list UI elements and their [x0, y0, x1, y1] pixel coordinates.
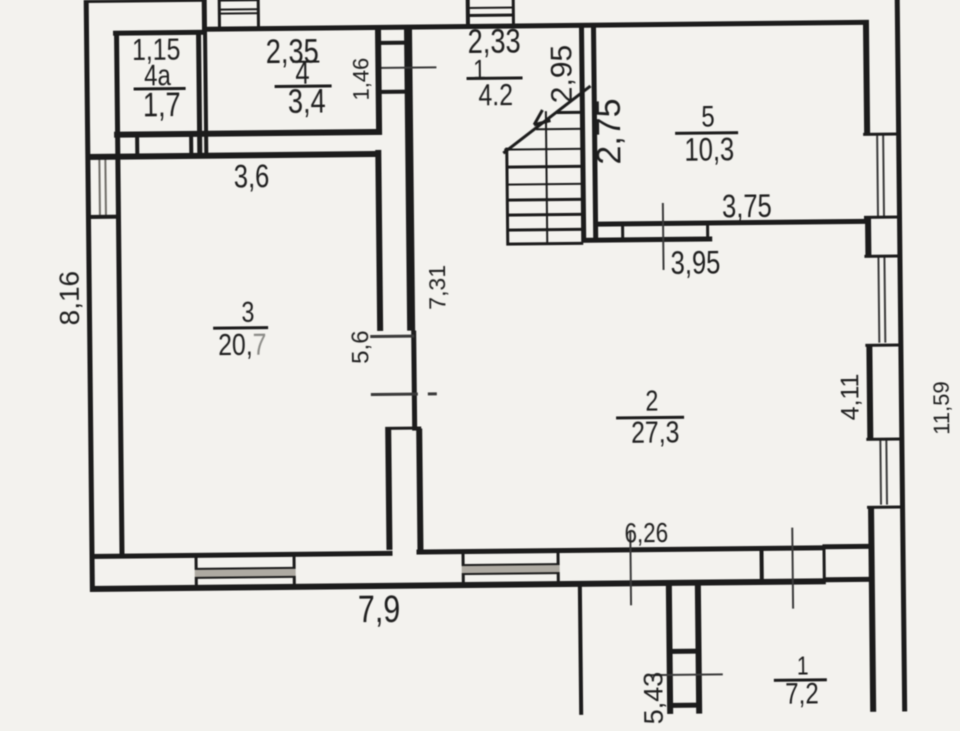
label 1,15 — [132, 34, 181, 66]
window R3 caps — [866, 437, 904, 441]
wall band right of door lower — [826, 576, 870, 582]
fraction line 4 — [275, 84, 332, 88]
label 11,59 — [931, 381, 954, 435]
bottom window B2 stripes — [462, 565, 560, 573]
room 4a right wall line 1 — [196, 30, 202, 158]
right wall inner segment C — [866, 347, 873, 438]
fraction line 4a — [134, 87, 186, 91]
label 20,7 — [217, 329, 266, 361]
label 7,9 — [358, 591, 401, 629]
window R3 glazing — [879, 441, 882, 505]
tick 6,26 — [629, 530, 632, 605]
bottom window B2 jambs — [461, 553, 464, 582]
fraction line hall — [467, 76, 523, 80]
left wall inner line — [115, 137, 124, 558]
door jamb bottom wall left — [759, 546, 763, 584]
label 4.2 — [478, 79, 513, 110]
label 6,26 — [624, 519, 668, 547]
label 1 room — [797, 652, 809, 678]
label 8,16 — [55, 271, 84, 326]
bottom inner wall line left part — [91, 550, 392, 558]
fraction line 1 — [774, 678, 827, 682]
underline 2,35 — [292, 60, 319, 63]
chimney block 2 — [466, 0, 470, 25]
window R1 caps — [863, 132, 901, 136]
door jamb bottom wall right — [822, 545, 826, 583]
wall notch vertical top — [202, 0, 207, 30]
label 3 room — [241, 299, 254, 328]
stairs steps — [504, 147, 582, 151]
label 2,95 — [547, 45, 578, 104]
label 3,6 — [234, 160, 270, 192]
right wall inner segment A — [862, 20, 869, 133]
door single line room3 — [411, 331, 418, 431]
corridor left wall — [577, 583, 583, 715]
bottom wall of rooms 4a and 4 — [114, 129, 382, 137]
room 5 bottom second line — [581, 236, 712, 242]
label 1,7 — [143, 88, 181, 122]
room 4 right wall — [375, 28, 382, 134]
hall left wall upper — [404, 28, 415, 331]
label 5,43 — [640, 672, 668, 725]
corridor-room1 connector 1 — [667, 649, 702, 654]
tick door bottom — [791, 528, 794, 609]
fraction line 3 — [213, 326, 268, 330]
outer wall left — [84, 0, 95, 592]
room 5 left wall line 2 — [591, 26, 598, 243]
room3-room2 lower wall left line — [385, 429, 392, 550]
bottom window B1 jambs — [195, 557, 198, 586]
tick 5,6 lower — [371, 393, 418, 396]
main top wall — [202, 20, 868, 31]
label 2,35 — [266, 35, 319, 70]
right wall inner segment D — [868, 509, 877, 712]
room3-hall wall left line — [375, 150, 382, 331]
label 7,31 — [425, 265, 448, 310]
label 5 — [701, 102, 715, 132]
wall band right of door upper — [822, 544, 869, 549]
left window caps — [86, 156, 119, 160]
threshold jamb right — [706, 225, 709, 241]
chimney block 1 — [218, 0, 221, 28]
corridor-room1 wall left line — [666, 583, 673, 714]
label 4,11 — [838, 373, 863, 420]
room 5 bottom inner line — [593, 219, 871, 227]
window R1 glazing — [876, 136, 879, 216]
opening 1,46 connector top — [379, 41, 406, 45]
label 2,33 — [467, 24, 520, 59]
label 1,46 — [350, 58, 372, 101]
corridor-room1 connector 2 — [667, 703, 702, 708]
tick 3,95 — [661, 203, 664, 270]
room 5 left wall line 1 — [579, 26, 586, 243]
opening 1,46 connector bottom — [380, 90, 407, 94]
corridor-room1 wall right line — [695, 583, 702, 714]
window R2 caps — [864, 254, 902, 258]
stairs diagonal — [502, 85, 591, 154]
label 27,3 — [631, 416, 680, 448]
label 2,75 — [592, 98, 627, 165]
room 4a top wall — [113, 30, 204, 36]
label 4a — [144, 61, 171, 91]
label 10,3 — [684, 133, 734, 166]
window R2 glazing — [877, 258, 880, 343]
room 4a right wall line 2 — [203, 30, 209, 158]
room 3 top wall — [87, 150, 380, 159]
label 5,6 — [349, 330, 373, 364]
label 4 — [295, 57, 310, 89]
bottom window B1 stripes — [195, 568, 296, 577]
label 1 hall — [473, 56, 486, 84]
threshold jamb left — [621, 226, 624, 242]
fraction line 5 — [675, 131, 738, 135]
leader 1,46 — [381, 66, 436, 69]
right wall outer line — [894, 0, 907, 711]
room 4a left wall — [114, 31, 120, 137]
lower wall top connector — [385, 427, 421, 430]
outer wall top-left thin — [84, 0, 206, 3]
label 3,75 — [722, 190, 772, 223]
label 3,4 — [288, 84, 326, 118]
door jamb 4a-3 left — [135, 131, 139, 158]
stairs divider — [544, 111, 548, 245]
thin leader room1 — [651, 673, 723, 676]
label 2 room — [645, 388, 658, 417]
stairs left edge — [505, 148, 509, 246]
bottom outer wall line — [90, 578, 826, 592]
stairs step upper right 1 — [557, 111, 582, 114]
right wall inner segment B — [865, 219, 871, 255]
door jamb 4a-3 right — [189, 131, 193, 158]
label 7,2 — [785, 679, 819, 709]
left window glazing — [98, 160, 101, 215]
tick 5,6 upper — [370, 335, 414, 338]
room3-room2 lower wall right line — [416, 429, 423, 550]
fraction line 2 — [616, 415, 684, 419]
stairs step upper right 2 — [536, 127, 582, 130]
bottom inner wall line right part — [416, 545, 825, 554]
stairs arrow — [534, 119, 551, 126]
label 3,95 — [670, 246, 720, 279]
